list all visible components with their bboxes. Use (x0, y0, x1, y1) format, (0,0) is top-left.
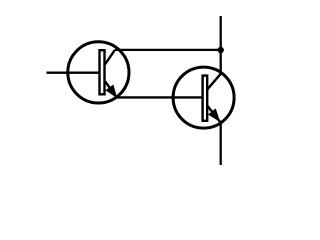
Q2 emitter lead (207, 105, 221, 122)
transistor Q1 (68, 42, 129, 103)
Q2 collector lead (207, 74, 221, 90)
Q1 emitter lead (105, 81, 117, 97)
wire: bottom vertical rail (Q2 emitter) (220, 122, 222, 165)
junction dot at collector node (218, 47, 224, 53)
transistor Q2 (173, 67, 234, 128)
Q1 base bar (100, 50, 105, 94)
Q2 base bar (203, 76, 208, 121)
Q1 body circle (68, 42, 129, 103)
Q2 body circle (173, 67, 234, 128)
Q1 collector lead (105, 50, 115, 64)
wire: Q1 collector to node (top horizontal) (115, 49, 221, 51)
wire: top vertical rail (220, 16, 222, 74)
wire: Q1 base lead (left horizontal) (47, 72, 101, 74)
Q1 emitter arrow (106, 85, 116, 97)
Q2 emitter arrow (209, 109, 219, 121)
wire: Q1 emitter to Q2 base (middle horizontal) (116, 96, 203, 98)
